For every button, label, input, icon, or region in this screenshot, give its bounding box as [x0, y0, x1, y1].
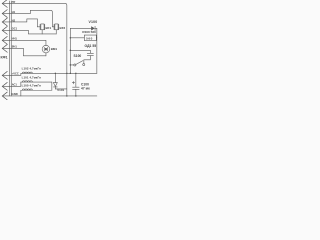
junction dot ladder bottom — [70, 73, 71, 74]
diode V100 output wire — [95, 27, 97, 29]
svg-text:ПУ: ПУ — [12, 0, 16, 4]
transducer BM1 circle — [42, 45, 50, 53]
resistor R100 right lead — [95, 37, 98, 39]
capacitor branch top wire — [70, 50, 90, 53]
pin 9 arrow — [2, 92, 7, 100]
capacitor bottom lead to switch — [84, 56, 91, 64]
transducer BM1 inner right bar — [47, 47, 49, 51]
switch S100 moving contact — [74, 64, 76, 66]
capacitor C100 plus sign — [72, 81, 74, 83]
svg-text:560: 560 — [86, 36, 93, 40]
pin 8 arrow — [2, 82, 7, 90]
pin 1 wire row A — [2, 3, 67, 73]
junction dot switch row — [70, 64, 71, 65]
filter BF1 lead — [37, 26, 40, 28]
pin 7 wire row G to L102 — [2, 73, 97, 75]
svg-text:L101 4,7мкГн: L101 4,7мкГн — [22, 76, 41, 80]
junction dot ladder R100 row — [70, 37, 71, 38]
svg-text:V101: V101 — [57, 88, 64, 92]
svg-text:ВЧ1: ВЧ1 — [12, 45, 18, 49]
net stub from V101 loop to ground rail — [66, 89, 68, 96]
svg-text:47 мк: 47 мк — [81, 87, 90, 91]
svg-text:BM1: BM1 — [51, 47, 58, 51]
svg-text:L100 4,7мкГн: L100 4,7мкГн — [22, 83, 41, 87]
svg-text:Н2: Н2 — [12, 18, 16, 22]
junction dot rail at C100 — [75, 95, 76, 96]
filter BF1 body — [41, 24, 44, 30]
junction dot ladder cap row — [70, 50, 71, 51]
svg-text:КФ1: КФ1 — [1, 55, 8, 59]
switch S100 lever — [76, 61, 83, 65]
diode V101 cathode bar — [53, 86, 57, 88]
filter BF1 vertical feed wire — [36, 19, 38, 27]
filter BF2 bottom lead — [55, 30, 57, 34]
diode V100 cathode bar — [94, 26, 96, 30]
junction dot C100 top — [75, 73, 76, 74]
pin 4 arrow — [2, 26, 7, 34]
junction dot V101 top — [55, 73, 56, 74]
filter BF1 right plate — [44, 24, 46, 29]
V101 loop bottom wire — [55, 73, 67, 89]
diode V100 triangle — [91, 26, 95, 30]
capacitor top plate — [87, 52, 93, 54]
capacitor C100 top plate — [73, 86, 80, 88]
pin 4 wire row D — [3, 30, 57, 34]
inductor L102 winding — [22, 72, 32, 73]
capacitor C100 bottom lead — [75, 90, 77, 96]
inductor L101 winding — [22, 81, 32, 82]
filter BF2 left plate — [53, 24, 55, 29]
switch S100 left wire — [70, 64, 73, 66]
pin 5 arrow — [2, 36, 7, 44]
diode V101 bottom stub — [54, 87, 56, 89]
pin 2 wire row B — [2, 10, 52, 27]
svg-text:НЧ1: НЧ1 — [12, 37, 18, 41]
junction dot rail at net wire — [66, 95, 67, 96]
junction dot row G end — [66, 73, 67, 74]
pin 1 arrow — [2, 0, 7, 7]
svg-text:V100: V100 — [89, 20, 98, 24]
pin 9 jog up to L100 row — [21, 90, 52, 96]
pin 2 arrow — [2, 10, 7, 18]
transducer BM1 inner box — [45, 48, 47, 50]
diode V101 triangle — [53, 83, 57, 87]
capacitor C100 top lead — [75, 73, 77, 87]
supply ladder right leg — [96, 28, 98, 73]
capacitor C100 bottom plate — [73, 88, 80, 90]
pin 6 wire row F — [3, 48, 46, 56]
svg-text:Н1: Н1 — [12, 10, 16, 14]
svg-text:BF1: BF1 — [45, 26, 51, 30]
svg-text:L102 4,7мкГн: L102 4,7мкГн — [22, 66, 41, 70]
svg-text:GND: GND — [12, 92, 18, 96]
inductor L100 winding — [22, 89, 32, 90]
diode V101 vertical wire — [54, 73, 56, 82]
filter BF2 lead — [52, 26, 54, 28]
filter BF2 right plate — [58, 24, 60, 29]
filter BF2 body — [55, 24, 58, 30]
connector KF1 bus lines — [9, 1, 11, 96]
filter BF1 bottom lead — [41, 30, 43, 34]
resistor R100 body — [84, 35, 96, 41]
pin 3 arrow — [2, 18, 7, 26]
pin 9 wire row I ground rail — [3, 95, 97, 97]
svg-text:S100: S100 — [74, 54, 82, 58]
svg-text:BF2: BF2 — [60, 26, 66, 30]
svg-text:ОС1: ОС1 — [12, 27, 18, 31]
vertical joining L101 and L100 rows — [51, 82, 53, 90]
supply ladder left leg — [69, 28, 71, 73]
svg-text:АС1: АС1 — [12, 83, 18, 87]
pin 3 wire row C — [3, 19, 38, 22]
resistor R100 row wire — [70, 37, 84, 39]
filter BF1 left plate — [39, 24, 41, 29]
svg-text:R100 560: R100 560 — [82, 30, 96, 34]
switch S100 fixed contact — [83, 63, 85, 65]
transducer BM1 bottom lead — [45, 53, 47, 56]
pin 8 wire row H to L101 — [3, 82, 52, 86]
pin 6 arrow — [2, 44, 7, 52]
svg-text:+VCC: +VCC — [12, 72, 19, 76]
transducer BM1 inner left bar — [43, 47, 45, 51]
diode V100 row wire — [70, 27, 91, 29]
pin 5 wire row E — [3, 40, 46, 45]
svg-text:ОД1 55: ОД1 55 — [85, 44, 97, 48]
pin 7 arrow — [2, 71, 7, 79]
capacitor bottom plate — [87, 55, 93, 57]
